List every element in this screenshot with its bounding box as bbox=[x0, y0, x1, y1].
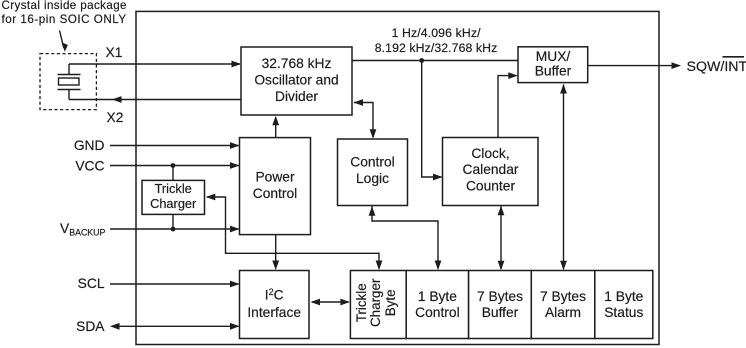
svg-text:Oscillator and: Oscillator and bbox=[254, 73, 338, 88]
svg-text:32.768 kHz: 32.768 kHz bbox=[262, 56, 332, 71]
svg-text:I2C: I2C bbox=[265, 287, 284, 303]
svg-text:7 Bytes: 7 Bytes bbox=[477, 289, 523, 304]
svg-text:Crystal inside package: Crystal inside package bbox=[2, 0, 127, 12]
svg-text:Counter: Counter bbox=[466, 178, 515, 193]
svg-text:SCL: SCL bbox=[78, 276, 105, 291]
svg-text:Control: Control bbox=[350, 155, 394, 170]
svg-text:SDA: SDA bbox=[76, 319, 105, 334]
svg-text:Clock,: Clock, bbox=[471, 146, 509, 161]
svg-text:Charger: Charger bbox=[150, 196, 197, 211]
svg-text:1 Byte: 1 Byte bbox=[418, 289, 457, 304]
svg-text:Interface: Interface bbox=[247, 305, 301, 320]
svg-text:for 16-pin SOIC ONLY: for 16-pin SOIC ONLY bbox=[2, 13, 127, 26]
svg-text:Byte: Byte bbox=[383, 289, 398, 316]
svg-text:Calendar: Calendar bbox=[463, 162, 519, 177]
svg-text:Charger: Charger bbox=[368, 278, 383, 327]
svg-text:Logic: Logic bbox=[356, 171, 389, 186]
svg-text:X1: X1 bbox=[106, 45, 123, 60]
svg-text:Alarm: Alarm bbox=[545, 305, 581, 320]
svg-text:Power: Power bbox=[255, 169, 295, 184]
svg-text:GND: GND bbox=[74, 138, 105, 153]
svg-text:MUX/: MUX/ bbox=[536, 49, 571, 64]
svg-text:SQW/INT: SQW/INT bbox=[687, 59, 746, 75]
svg-text:Status: Status bbox=[604, 305, 643, 320]
svg-text:X2: X2 bbox=[107, 110, 124, 125]
svg-text:Buffer: Buffer bbox=[535, 63, 572, 78]
svg-text:7 Bytes: 7 Bytes bbox=[540, 289, 586, 304]
svg-text:1 Hz/4.096 kHz/: 1 Hz/4.096 kHz/ bbox=[392, 26, 482, 40]
svg-text:Buffer: Buffer bbox=[482, 305, 519, 320]
svg-text:Trickle: Trickle bbox=[354, 283, 369, 322]
svg-text:Control: Control bbox=[415, 305, 459, 320]
svg-text:8.192 kHz/32.768 kHz: 8.192 kHz/32.768 kHz bbox=[375, 41, 498, 55]
svg-text:1 Byte: 1 Byte bbox=[604, 289, 643, 304]
svg-text:Divider: Divider bbox=[275, 89, 318, 104]
svg-text:VCC: VCC bbox=[75, 158, 104, 173]
svg-text:Trickle: Trickle bbox=[155, 181, 192, 196]
svg-text:Control: Control bbox=[253, 186, 297, 201]
